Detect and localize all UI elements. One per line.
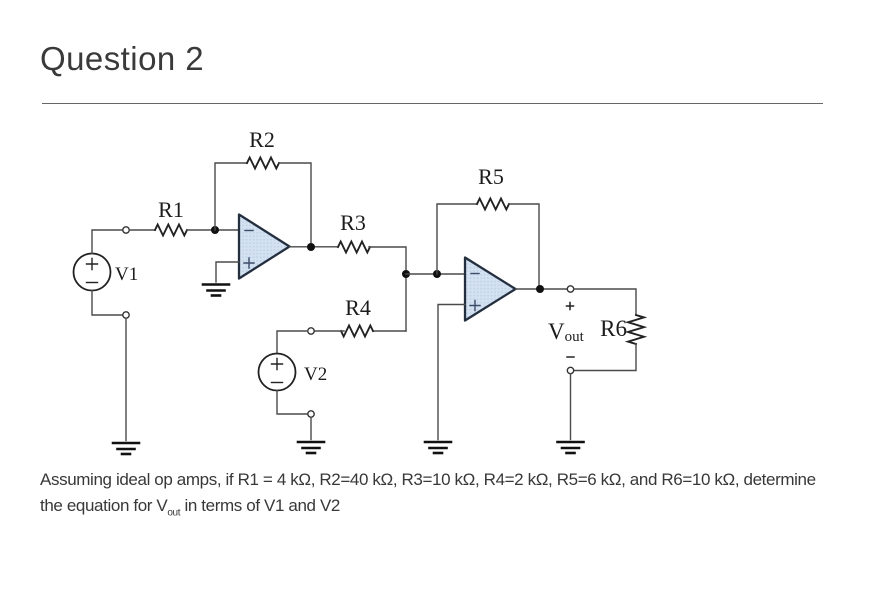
resistor R3 [338, 242, 370, 253]
wire Vout+ to R6 [574, 289, 636, 315]
V1 bottom terminal (open circle) [123, 312, 129, 318]
Vout+ terminal (open circle) [567, 286, 573, 292]
op-amp U2 [465, 258, 516, 321]
wire V1 top to input terminal [92, 230, 123, 254]
svg-text:R1: R1 [158, 197, 184, 222]
node C (junction on vertical) [402, 270, 410, 278]
voltage source V1 [74, 254, 111, 291]
wire U1 plus input to ground [216, 262, 239, 282]
resistor R5 [477, 199, 509, 210]
node A (junction dot) [211, 226, 219, 234]
wire R3 to node C / down to R4 row [369, 247, 406, 331]
wire R6 bottom to Vout- terminal [574, 344, 636, 371]
resistor R6 [628, 315, 644, 344]
ground (U1 plus input) [203, 285, 229, 296]
wire R4 row from vertical to resistor [373, 330, 406, 332]
svg-text:Vout: Vout [548, 319, 585, 345]
wire R2 to op-amp output [279, 163, 311, 247]
node E (U2 output junction) [536, 285, 544, 293]
wire U2 plus input to ground [438, 305, 465, 440]
svg-text:V1: V1 [115, 264, 138, 285]
ground (U2 plus input) [425, 442, 451, 453]
wire V1 bottom to terminal [92, 291, 123, 316]
op-amp U1 [239, 215, 290, 279]
svg-text:V2: V2 [304, 364, 327, 385]
wire terminal to R1 [129, 229, 155, 231]
svg-text:R3: R3 [340, 210, 366, 235]
svg-text:R4: R4 [345, 295, 371, 320]
V2 bottom terminal (open circle) [308, 411, 314, 417]
wire V1 terminal to ground [125, 318, 127, 440]
svg-text:R2: R2 [249, 127, 275, 152]
wire R5 to U2 output [509, 204, 539, 289]
label - (Vout) [567, 356, 574, 358]
voltage source V2 [259, 354, 296, 391]
wire terminal to V2 source [277, 331, 308, 354]
wire Vout- terminal to ground [570, 374, 572, 440]
resistor R4 [341, 326, 373, 337]
wire U2 output to Vout+ terminal [516, 288, 568, 290]
Vout- terminal (open circle) [567, 367, 573, 373]
resistor R2 [247, 158, 279, 169]
ground (V1) [113, 443, 139, 454]
node D (junction to R5) [433, 270, 441, 278]
wire R1 to node A [187, 229, 239, 231]
input terminal (open circle) top [123, 227, 129, 233]
wire R4 to V2 terminal [314, 330, 344, 332]
wire V2 terminal to ground [310, 417, 312, 439]
wire node C to U2 inverting input [406, 273, 465, 275]
label + (Vout) [567, 303, 574, 310]
svg-text:R6: R6 [600, 316, 627, 341]
wire U1 output [290, 246, 339, 248]
V2 top terminal (open circle) [308, 328, 314, 334]
node B (U1 output junction) [307, 243, 315, 251]
svg-text:R5: R5 [478, 164, 504, 189]
wire node A up to R2 [215, 163, 247, 230]
ground (Vout-) [558, 442, 584, 453]
ground (V2) [298, 442, 324, 453]
wire V2 bottom to terminal [277, 391, 308, 415]
resistor R1 [155, 225, 187, 236]
wire node D up to R5 [437, 204, 477, 274]
